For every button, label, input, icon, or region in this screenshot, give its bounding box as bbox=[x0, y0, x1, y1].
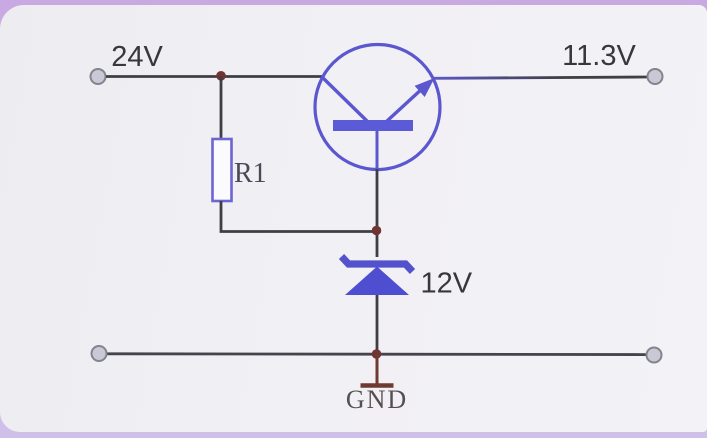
wire transistor to output terminal bbox=[433, 77, 647, 78]
transistor Q1 base lead down bbox=[376, 131, 379, 169]
terminal 24V input bbox=[91, 69, 106, 84]
ground GND stem bbox=[376, 354, 379, 384]
transistor Q1 base bar bbox=[333, 120, 413, 131]
ground GND bar bbox=[361, 383, 394, 388]
junction base node bbox=[372, 226, 382, 236]
resistor R1 bbox=[213, 139, 232, 201]
zener D1 anode triangle bbox=[345, 267, 409, 296]
wire zener to ground rail bbox=[376, 295, 379, 354]
terminal ground right bbox=[647, 348, 662, 363]
wire transistor to zener bbox=[376, 169, 379, 257]
transistor Q1 collector stroke bbox=[322, 77, 367, 121]
transistor Q1 body circle bbox=[315, 45, 440, 170]
junction input node bbox=[216, 71, 226, 81]
terminal ground left bbox=[92, 346, 107, 361]
svg-text:GND: GND bbox=[346, 385, 408, 414]
svg-text:R1: R1 bbox=[234, 158, 267, 189]
ground rail wire bbox=[107, 352, 646, 356]
svg-text:12V: 12V bbox=[421, 268, 473, 300]
wire junction down to R1 bbox=[220, 76, 223, 140]
terminal 11.3V output bbox=[648, 69, 663, 84]
transistor Q1 emitter arrow head bbox=[415, 78, 435, 97]
svg-text:24V: 24V bbox=[111, 41, 163, 73]
zener D1 cathode bar bbox=[342, 257, 413, 272]
svg-text:11.3V: 11.3V bbox=[562, 40, 636, 72]
junction ground node bbox=[372, 349, 382, 359]
transistor Q1 emitter stroke bbox=[387, 87, 424, 121]
wire R1 to base node bbox=[221, 201, 377, 232]
wire input rail to transistor bbox=[106, 75, 322, 78]
